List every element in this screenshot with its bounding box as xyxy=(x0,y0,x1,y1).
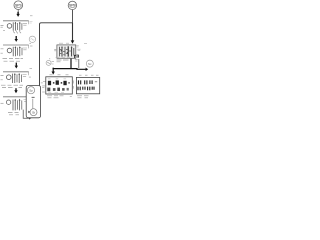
svg-text:Sc: Sc xyxy=(88,62,92,66)
svg-text:SPS: SPS xyxy=(15,3,23,7)
svg-text:Sp: Sp xyxy=(29,88,33,92)
svg-text:St: St xyxy=(32,110,35,114)
svg-text:SPB: SPB xyxy=(69,4,77,8)
